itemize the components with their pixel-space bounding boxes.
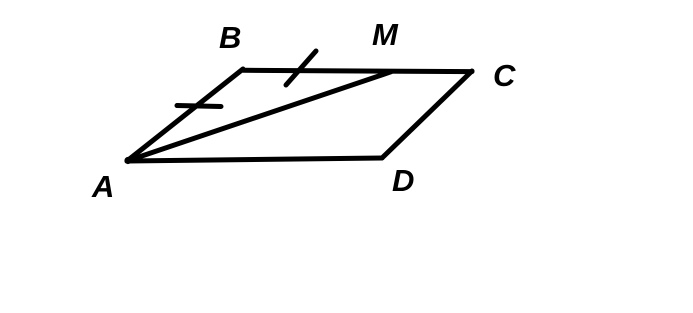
segment AM [127, 72, 391, 161]
svg-text:B: B [219, 20, 241, 55]
tick mark on AB [177, 106, 221, 107]
node A dot [124, 157, 131, 164]
side BC through M [243, 70, 472, 71]
side CD [382, 71, 472, 158]
side AB [127, 69, 243, 161]
side DA [127, 158, 382, 161]
svg-text:A: A [91, 169, 114, 204]
svg-text:M: M [372, 17, 399, 52]
svg-text:D: D [392, 163, 414, 198]
tick mark on BM [286, 51, 316, 85]
svg-text:C: C [493, 58, 516, 93]
